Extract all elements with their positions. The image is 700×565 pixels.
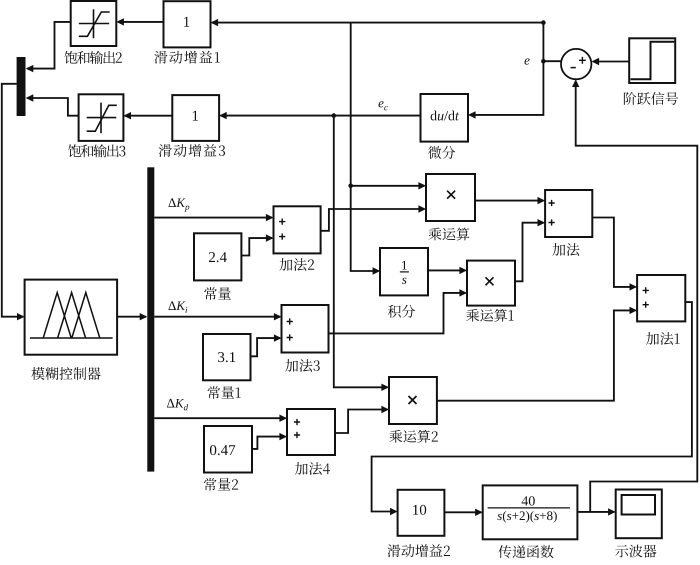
product block 乘运算1 [467,261,515,306]
saturation block 饱和输出2 [71,1,117,46]
label 积分 [388,305,415,318]
wire e_c from 微分 to 滑动增益3 [219,112,420,119]
wire 阶跃信号 to sum [592,58,630,65]
junction dot e mid [541,59,546,64]
gain block 10 滑动增益2 [398,490,445,536]
integrator block 1/s [380,248,428,295]
product block 乘运算 [426,174,475,221]
fuzzy controller block 模糊控制器 [25,280,118,355]
wire 加法2 to 乘运算 [321,205,426,231]
derivative block du/dt [421,94,469,142]
wire mux to 模糊控制器 [2,84,25,321]
label 加法3 [285,359,320,372]
wire 乘运算2 to 加法1 [437,307,637,401]
wire e vertical to 微分 [468,23,543,119]
wire 常量 to 加法2 [241,234,273,255]
node label e_c [379,101,388,110]
label 滑动增益1 [154,51,219,64]
sum block 加法3 [282,305,329,353]
wire 加法1 to 滑动增益2 [372,302,692,515]
feedback wire to sum [572,79,697,512]
wire 模糊控制器 to demux [117,313,147,320]
wire demux ΔKp to 加法2 [154,214,273,221]
wire 滑动增益3 to 饱和输出3 [123,112,172,119]
saturation block 饱和输出3 [79,94,124,141]
wire e_c down to 乘运算2 [334,116,389,391]
wire 滑动增益1 to 饱和输出2 [116,18,163,25]
label 乘运算2 [389,430,438,443]
node label ΔKp [169,198,190,211]
label 饱和输出3 [68,144,125,157]
label 滑动增益2 [388,544,451,557]
wire 饱和输出3 to mux [26,94,79,115]
label 示波器 [615,545,656,558]
sum block 加法 [545,190,592,237]
sum junction (+ -) [561,49,591,79]
wire sum output to e node [543,60,561,62]
wire 滑动增益2 to 传递函数 [444,509,482,516]
junction dot e branch [348,184,353,189]
product block 乘运算2 [389,377,437,424]
label 常量1 [207,386,240,399]
mux bar [17,57,26,116]
label 加法1 [646,332,680,345]
label 传递函数 [498,545,553,558]
wire demux ΔKi to 加法3 [154,313,281,320]
label 加法2 [280,258,315,271]
sum block 加法2 [274,206,321,253]
constant block 2.4 常量 [194,233,241,280]
wire e branch to 乘运算 [351,182,426,189]
constant block 3.1 常量1 [203,334,251,380]
node label ΔKi [169,301,188,312]
sum block 加法4 [287,409,335,455]
label 乘运算1 [466,309,514,322]
step source 阶跃信号 [629,38,675,83]
wire 加法3 to 乘运算1 [329,289,468,333]
wire 传递函数 to 示波器 [577,508,615,515]
wire 加法 to 加法1 [592,218,637,291]
wire 积分 to 乘运算1 [428,267,467,274]
wire 乘运算1 to 加法 [515,219,545,281]
sum block 加法1 [637,275,685,321]
node label e [525,58,530,64]
wire demux ΔKd to 加法4 [154,415,287,422]
label 常量 [204,287,231,300]
label 常量2 [204,478,238,491]
wire e to 滑动增益1 [211,19,544,26]
wire 加法4 to 乘运算2 [335,406,389,433]
label 微分 [428,146,455,159]
junction dot e top [541,20,546,25]
wire e branch down to 积分 [351,23,381,275]
label 乘运算 [429,228,470,241]
label 加法4 [295,462,330,475]
node label ΔKd [167,399,188,411]
wire 常量1 to 加法3 [251,334,282,356]
wire 乘运算 to 加法 [475,197,545,204]
gain block 滑动增益1 [164,1,211,47]
constant block 0.47 常量2 [204,426,252,473]
scope block 示波器 [616,490,662,539]
label 加法 [552,243,579,256]
label 饱和输出2 [65,51,122,64]
label 模糊控制器 [31,367,100,380]
junction dot e_c branch [332,113,337,118]
label 阶跃信号 [624,92,678,105]
label 滑动增益3 [159,144,225,157]
demux bar [147,167,154,471]
gain block 滑动增益3 [172,95,219,141]
transfer function block 40/s(s+2)(s+8) [483,485,578,539]
wire 饱和输出2 to mux [26,22,71,72]
wire 常量2 to 加法4 [252,433,287,449]
